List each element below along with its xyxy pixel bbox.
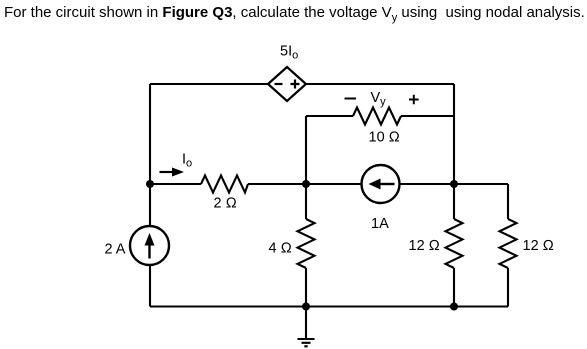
wire middle left [150, 183, 201, 185]
wire middle right [400, 183, 509, 185]
wire left vertical upper [149, 84, 151, 226]
node C dot [450, 180, 458, 188]
node E dot [450, 303, 458, 311]
svg-text:Vy: Vy [371, 90, 387, 108]
svg-text:5Io: 5Io [280, 44, 298, 62]
wire 10ohm branch right horizontal [401, 115, 454, 117]
wire right vertical x454 upper [453, 84, 455, 184]
Vy minus sign [345, 98, 357, 100]
dependent source plus sign [291, 80, 300, 89]
wire 10ohm branch left horizontal [306, 115, 353, 117]
svg-text:12 Ω: 12 Ω [523, 238, 554, 254]
wire left vertical lower [149, 265, 151, 307]
svg-text:1A: 1A [371, 216, 389, 232]
svg-text:10 Ω: 10 Ω [369, 130, 400, 146]
node A dot [146, 180, 154, 188]
Io arrow [160, 171, 175, 173]
Vy plus sign [409, 95, 419, 105]
node D dot (ground node) [302, 303, 310, 311]
wire x306 lower [305, 268, 307, 307]
current source 2A arrow [148, 244, 150, 259]
ground symbol [298, 307, 315, 347]
wire top-left horizontal [150, 83, 268, 85]
dependent source U1 diamond 5Io [268, 67, 306, 101]
wire x306 below middle [305, 184, 307, 219]
svg-text:2 Ω: 2 Ω [214, 196, 237, 212]
wire x508 lower [507, 268, 509, 307]
current source I1 1A circle [362, 165, 400, 203]
current source 1A arrow [380, 183, 395, 185]
header text [4, 4, 585, 24]
wire x508 upper [507, 184, 509, 219]
dependent source minus sign [275, 83, 283, 85]
current source I2 2A circle [130, 226, 169, 265]
resistor R2 10ohm [353, 108, 401, 125]
wire middle center [248, 183, 362, 185]
resistor R4 12ohm left [446, 219, 463, 268]
node B dot [302, 180, 310, 188]
wire bottom horizontal [150, 305, 508, 307]
svg-text:4 Ω: 4 Ω [269, 241, 292, 257]
wire x454 below middle [453, 184, 455, 219]
svg-text:Io: Io [182, 152, 192, 170]
wire top-right horizontal [306, 83, 454, 85]
svg-text:2 A: 2 A [105, 242, 126, 258]
svg-text:12 Ω: 12 Ω [409, 238, 440, 254]
resistor R5 12ohm right [500, 219, 517, 268]
wire x454 lower [453, 268, 455, 307]
wire 10ohm branch left drop [305, 116, 307, 184]
resistor R3 4ohm [298, 219, 315, 268]
resistor R1 2ohm [201, 176, 248, 193]
